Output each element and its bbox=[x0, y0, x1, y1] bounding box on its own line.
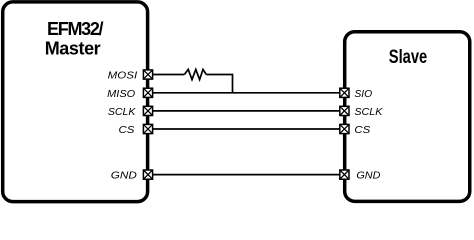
pin label MOSI bbox=[108, 70, 138, 82]
pin label GND (right box) bbox=[356, 170, 380, 182]
block U2: Slave bbox=[345, 32, 470, 202]
svg-text:MISO: MISO bbox=[107, 88, 135, 100]
pin label GND (left box) bbox=[111, 170, 137, 182]
pin GND (right box) bbox=[340, 170, 349, 179]
pin SCLK (right box) bbox=[340, 106, 349, 115]
svg-text:GND: GND bbox=[111, 170, 137, 182]
svg-text:SCLK: SCLK bbox=[354, 106, 383, 118]
pin label CS (left box) bbox=[119, 124, 135, 136]
pin label SIO bbox=[354, 88, 372, 100]
svg-text:Master: Master bbox=[45, 39, 101, 59]
svg-text:CS: CS bbox=[354, 124, 370, 136]
pin SCLK (left box) bbox=[143, 106, 152, 115]
svg-text:CS: CS bbox=[119, 124, 135, 136]
pin label SCLK (right box) bbox=[354, 106, 383, 118]
pin CS (left box) bbox=[143, 124, 152, 133]
wire CS to CS bbox=[152, 128, 340, 130]
pin SIO (right box) bbox=[340, 88, 349, 97]
label: Slave bbox=[389, 47, 428, 68]
pin GND (left box) bbox=[143, 170, 152, 179]
wire resistor R1 to node A (corner) bbox=[206, 75, 232, 93]
pin label MISO bbox=[107, 88, 135, 100]
pin MISO (left box) bbox=[143, 88, 152, 97]
pin CS (right box) bbox=[340, 124, 349, 133]
wire MISO to SIO (node A junction) bbox=[152, 92, 340, 94]
svg-text:GND: GND bbox=[356, 170, 380, 182]
svg-text:SIO: SIO bbox=[354, 88, 372, 100]
svg-text:EFM32/: EFM32/ bbox=[47, 19, 104, 39]
pin label CS (right box) bbox=[354, 124, 370, 136]
wire SCLK to SCLK bbox=[152, 110, 340, 112]
pin label SCLK (left box) bbox=[108, 106, 136, 118]
pin MOSI (left box) bbox=[143, 70, 152, 79]
wire GND to GND bbox=[152, 174, 340, 176]
label: Master bbox=[45, 39, 101, 59]
svg-text:Slave: Slave bbox=[389, 47, 428, 68]
block U1: EFM32/Master bbox=[3, 2, 148, 202]
svg-text:MOSI: MOSI bbox=[108, 70, 138, 82]
resistor R1 bbox=[184, 69, 206, 79]
svg-text:SCLK: SCLK bbox=[108, 106, 136, 118]
wire MOSI pin to resistor R1 bbox=[152, 74, 184, 76]
label: EFM32/ bbox=[47, 19, 104, 39]
